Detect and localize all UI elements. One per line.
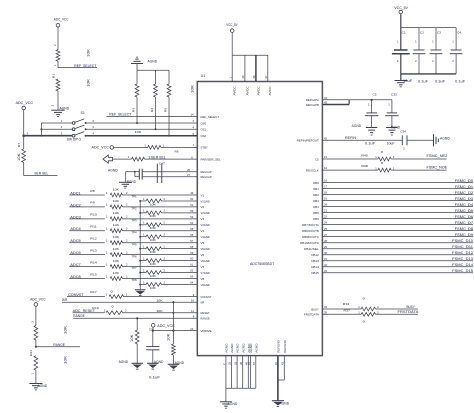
wire FRSTDATA: [322, 313, 361, 315]
power symbol ADC_VCC (VDRIVE): [151, 324, 175, 331]
svg-text:REFCAPA: REFCAPA: [306, 98, 320, 102]
wire switch common bold: [24, 135, 72, 137]
svg-text:64: 64: [190, 281, 193, 285]
svg-text:C32: C32: [391, 92, 397, 96]
resistor R21 10K (upper): [31, 321, 68, 347]
svg-text:26: 26: [187, 168, 190, 172]
svg-text:RGND: RGND: [127, 180, 137, 184]
svg-text:10K: 10K: [113, 235, 119, 239]
resistor R13 10K (ADC6 series): [90, 247, 197, 257]
svg-text:10K: 10K: [113, 223, 119, 227]
svg-text:R40: R40: [361, 153, 368, 157]
svg-text:AGND: AGND: [280, 401, 290, 405]
svg-text:R38: R38: [361, 164, 368, 168]
svg-text:REFGND: REFGND: [277, 339, 281, 352]
svg-text:FSMC_D8: FSMC_D8: [455, 227, 473, 231]
net ADC1: [69, 191, 105, 195]
svg-text:DB7/DOUTA: DB7/DOUTA: [302, 223, 320, 227]
svg-text:10K: 10K: [156, 299, 162, 303]
svg-text:10K: 10K: [150, 274, 156, 278]
wire DB8 / net FSMC_D8: [322, 227, 473, 231]
svg-text:ADC_VCC: ADC_VCC: [16, 101, 34, 105]
wire OS2 (bold): [87, 132, 198, 136]
svg-text:10K: 10K: [113, 247, 119, 251]
svg-text:19: 19: [324, 197, 327, 201]
resistor R40 0 (CS): [361, 150, 446, 161]
svg-text:CONVST: CONVST: [68, 293, 85, 297]
wire CS: [322, 158, 378, 160]
svg-text:22: 22: [324, 215, 327, 219]
svg-text:C34: C34: [400, 130, 406, 134]
svg-text:REFGND: REFGND: [283, 339, 287, 352]
U1 AGND pins bottom: [222, 343, 258, 366]
svg-text:AGND: AGND: [119, 360, 129, 364]
svg-text:FSMC_D10: FSMC_D10: [452, 239, 473, 243]
svg-text:VCC_5V: VCC_5V: [394, 6, 408, 10]
svg-text:R6: R6: [175, 149, 179, 153]
ground AGND (REFIN, rotated): [434, 134, 451, 146]
ground RGND (C32): [386, 125, 401, 135]
svg-text:DB13: DB13: [311, 259, 319, 263]
wire REFCAPB (bold): [322, 100, 349, 105]
svg-text:REGCAP: REGCAP: [201, 175, 212, 179]
svg-text:10K: 10K: [135, 130, 142, 134]
svg-text:RD/SCLK: RD/SCLK: [306, 168, 320, 172]
svg-text:R13: R13: [90, 248, 97, 252]
ground AGND (below divider): [51, 106, 69, 116]
svg-text:0.1uF: 0.1uF: [455, 79, 465, 83]
svg-text:REGCAP: REGCAP: [201, 170, 212, 174]
svg-text:AGND: AGND: [254, 343, 258, 353]
svg-text:18: 18: [324, 191, 327, 195]
test point TP8: [132, 278, 138, 282]
svg-text:RESET: RESET: [201, 311, 210, 315]
resistor R26 10K (V7GND pulldown): [139, 268, 197, 278]
svg-text:AGND: AGND: [175, 361, 185, 365]
svg-text:FSMC_D2: FSMC_D2: [455, 191, 473, 195]
resistor R25 10K (V6GND pulldown): [139, 256, 197, 266]
svg-text:RANGE: RANGE: [73, 314, 85, 318]
svg-text:10K: 10K: [150, 202, 156, 206]
svg-text:0.1uF: 0.1uF: [149, 376, 160, 380]
resistor R8 10K (ADC1 series): [90, 187, 197, 197]
resistor R9 10K (ADC2 series): [90, 199, 197, 209]
svg-text:10K: 10K: [150, 262, 156, 266]
svg-text:V4: V4: [201, 229, 205, 233]
value 10K (RESET row): [156, 309, 162, 313]
wire VGND bus: [139, 201, 141, 291]
svg-text:58: 58: [190, 245, 193, 249]
svg-text:32: 32: [324, 263, 327, 267]
net RANGE (divider tap): [35, 343, 80, 348]
svg-text:DB14: DB14: [311, 265, 319, 269]
svg-text:REF_SELECT: REF_SELECT: [109, 112, 132, 116]
svg-text:61: 61: [190, 263, 193, 267]
resistor R14 10K (ADC7 series): [90, 259, 197, 269]
svg-text:V6: V6: [201, 253, 205, 257]
wire AVCC rail: [232, 54, 268, 56]
wire DB11 / net FSMC_D11: [322, 245, 473, 249]
net BUSY: [407, 305, 416, 309]
svg-text:V3GND: V3GND: [201, 223, 211, 227]
svg-text:RANGE: RANGE: [201, 317, 210, 321]
svg-text:49: 49: [190, 191, 193, 195]
svg-text:27: 27: [187, 173, 190, 177]
wire DB1 / net FSMC_D1: [322, 185, 473, 189]
svg-text:20: 20: [324, 203, 327, 207]
svg-text:R10: R10: [90, 213, 97, 217]
svg-text:R8: R8: [90, 189, 95, 193]
svg-text:R14: R14: [90, 260, 97, 264]
svg-text:OS1: OS1: [201, 128, 207, 132]
capacitor C1 10uF bank: [392, 28, 410, 74]
test point TP2: [132, 207, 138, 211]
svg-text:R17: R17: [90, 290, 97, 294]
svg-text:13: 13: [324, 155, 327, 159]
svg-text:DB15: DB15: [311, 271, 319, 275]
svg-text:FSMC_NE2: FSMC_NE2: [427, 154, 448, 158]
svg-text:R34: R34: [343, 302, 350, 306]
svg-text:V4GND: V4GND: [201, 235, 211, 239]
wire REGCAP upper: [142, 168, 197, 172]
resistor R34 0 (BUSY): [343, 296, 418, 311]
svg-text:BUSY: BUSY: [407, 305, 416, 309]
svg-text:CONVST: CONVST: [201, 295, 212, 299]
svg-text:AGND: AGND: [241, 343, 245, 353]
svg-text:DB10/DOUTD: DB10/DOUTD: [300, 241, 319, 245]
svg-text:FRSTDATA: FRSTDATA: [398, 310, 420, 314]
switch S1 SW DIP-3: [61, 111, 95, 141]
net FSMC_NE2: [427, 154, 448, 158]
svg-text:10K: 10K: [113, 211, 119, 215]
svg-text:62: 62: [190, 269, 193, 273]
resistor R37 0 (FRSTDATA): [344, 309, 418, 324]
U1 REFGND pins bottom: [274, 339, 287, 400]
ground AGND (WR pulldown): [168, 361, 185, 370]
svg-text:FSMC_D3: FSMC_D3: [455, 197, 473, 201]
svg-text:DB4: DB4: [313, 205, 319, 209]
ground AGND (RANGE divider): [29, 384, 47, 390]
svg-text:VCC_5V: VCC_5V: [226, 23, 238, 27]
wire OS0: [87, 119, 198, 123]
svg-text:REFCAPB: REFCAPB: [306, 103, 319, 107]
svg-text:FSMC_D11: FSMC_D11: [452, 245, 473, 249]
svg-text:V7: V7: [201, 265, 205, 269]
svg-text:REF_SELECT: REF_SELECT: [74, 64, 97, 68]
ground AGND (U1 bottom): [220, 402, 238, 408]
svg-text:10K: 10K: [63, 355, 67, 364]
svg-text:42: 42: [324, 136, 327, 140]
wire AGND pin bus: [226, 366, 256, 402]
value 10K (WR pulldown): [156, 299, 162, 303]
capacitor C4 0.1uF bank: [450, 28, 465, 84]
svg-text:ADC7606SBDT: ADC7606SBDT: [250, 262, 274, 266]
svg-text:28: 28: [324, 239, 327, 243]
svg-text:R3: R3: [131, 107, 135, 112]
svg-text:V3: V3: [201, 217, 205, 221]
wire DB3 / net FSMC_D3: [322, 197, 473, 201]
svg-text:R7: R7: [17, 142, 21, 147]
svg-text:AGND: AGND: [225, 343, 229, 353]
resistor R19 0 (RESET): [92, 304, 197, 314]
svg-text:FRSTDATA: FRSTDATA: [304, 313, 320, 317]
svg-text:V8: V8: [201, 277, 205, 281]
svg-text:V2: V2: [201, 205, 205, 209]
svg-text:TP7: TP7: [132, 266, 138, 270]
test point TP6: [132, 254, 138, 258]
svg-text:AGND: AGND: [230, 343, 234, 353]
svg-text:FSMC_D4: FSMC_D4: [455, 203, 473, 207]
svg-text:AGND: AGND: [228, 402, 238, 406]
test point TP7: [132, 266, 138, 270]
test point TP3: [132, 218, 138, 222]
net ADC5: [69, 239, 105, 243]
svg-text:25: 25: [228, 362, 232, 365]
svg-text:TP5: TP5: [132, 242, 138, 246]
ground AGND (REFGND): [272, 401, 290, 407]
svg-text:VDRIVE: VDRIVE: [201, 329, 212, 333]
U1 right pin names and numbers: [297, 96, 328, 317]
svg-text:10uF: 10uF: [387, 141, 395, 145]
svg-text:AGND: AGND: [38, 384, 48, 388]
svg-text:57: 57: [190, 239, 193, 243]
svg-text:43: 43: [281, 362, 285, 365]
svg-text:R21: R21: [29, 349, 33, 356]
wire DB6 / net FSMC_D6: [322, 215, 473, 219]
wire BUSY: [322, 308, 361, 310]
wire REGCAP lower: [142, 173, 197, 177]
svg-text:AGND: AGND: [236, 343, 240, 353]
svg-text:RGND: RGND: [391, 125, 401, 129]
svg-text:OS2: OS2: [201, 134, 207, 138]
svg-text:AVCC: AVCC: [256, 85, 260, 95]
svg-text:FSMC_D9: FSMC_D9: [455, 233, 473, 237]
svg-text:FSMC_D12: FSMC_D12: [452, 251, 473, 255]
svg-text:V8GND: V8GND: [201, 283, 211, 287]
svg-text:REF_SELECT: REF_SELECT: [201, 115, 220, 119]
svg-text:1 SER SEL: 1 SER SEL: [148, 155, 166, 159]
svg-text:12: 12: [324, 166, 327, 170]
ground AGND (VGND bus): [135, 290, 146, 296]
svg-text:10K: 10K: [166, 332, 170, 341]
svg-text:FSMC_D7: FSMC_D7: [455, 221, 473, 225]
svg-text:29: 29: [324, 245, 327, 249]
svg-text:DB9/DOUTC: DB9/DOUTC: [302, 235, 319, 239]
wire DB15 / net FSMC_D15: [322, 269, 473, 273]
svg-text:33: 33: [324, 269, 327, 273]
svg-text:SER SEL: SER SEL: [34, 172, 48, 176]
svg-text:RANGE: RANGE: [53, 343, 65, 347]
ground AGND (C5): [352, 124, 378, 135]
U1 AVCC pins top: [228, 55, 272, 95]
svg-text:AGND: AGND: [154, 360, 164, 364]
svg-text:37: 37: [264, 75, 268, 78]
svg-text:34: 34: [324, 305, 327, 309]
svg-text:CS: CS: [315, 157, 319, 161]
svg-text:WR: WR: [201, 301, 205, 305]
svg-text:DB11/SEL: DB11/SEL: [304, 247, 319, 251]
test point TP5: [132, 242, 138, 246]
resistor R22 10K (RANGE pulldown): [130, 318, 139, 363]
resistor R22 10K (V3GND pulldown): [139, 221, 197, 231]
svg-text:R1: R1: [51, 73, 55, 78]
svg-text:10K: 10K: [63, 325, 67, 334]
svg-text:R12: R12: [90, 237, 97, 241]
svg-text:DB6: DB6: [313, 217, 319, 221]
junction at switch common: [22, 131, 28, 137]
svg-text:R4: R4: [150, 107, 154, 112]
svg-text:10uF: 10uF: [403, 79, 412, 83]
svg-text:10K: 10K: [150, 286, 156, 290]
resistor R2 10K: [51, 73, 91, 110]
wire DB14 / net FSMC_D14: [322, 263, 473, 267]
svg-text:10K: 10K: [113, 199, 119, 203]
svg-text:TP3: TP3: [132, 218, 138, 222]
svg-text:DB1: DB1: [313, 187, 319, 191]
svg-text:DB12: DB12: [311, 253, 319, 257]
resistor R23 10K (WR pulldown): [166, 301, 175, 364]
svg-text:REFIN/REFOUT: REFIN/REFOUT: [297, 139, 319, 143]
svg-text:14: 14: [191, 113, 194, 117]
net RANGE (pin row): [73, 314, 197, 319]
svg-text:AVCC: AVCC: [233, 85, 237, 95]
svg-text:S1: S1: [81, 111, 86, 115]
net ADC_RESET: [73, 309, 105, 313]
wire cap bank bottom rail: [401, 73, 456, 75]
svg-text:AVCC: AVCC: [268, 85, 272, 95]
ground AGND (C9): [147, 360, 164, 369]
power symbol ADC_VCC (RANGE divider): [30, 298, 46, 326]
svg-text:C2: C2: [420, 31, 424, 35]
off-page connector SER_SEL: [103, 155, 132, 163]
net ADC4: [69, 227, 105, 231]
svg-text:R11: R11: [90, 225, 97, 229]
svg-text:0.1uF: 0.1uF: [435, 79, 445, 83]
resistor R20 10K (V1GND pulldown): [139, 197, 197, 207]
svg-text:DB3: DB3: [313, 199, 319, 203]
svg-text:FSMC_D5: FSMC_D5: [455, 209, 473, 213]
power symbol ADC_VCC (switch common): [16, 101, 34, 136]
resistor R11 10K (ADC4 series): [90, 223, 197, 233]
resistor R27 10K (V8GND pulldown): [139, 280, 197, 290]
capacitor C32 10uF: [385, 92, 398, 145]
svg-text:36: 36: [239, 362, 243, 365]
wire DB5 / net FSMC_D5: [322, 209, 473, 213]
svg-text:10K: 10K: [191, 84, 195, 93]
capacitor C6 (REGCAP upper): [133, 169, 142, 175]
svg-text:STBY: STBY: [201, 146, 208, 150]
net FRSTDATA: [398, 310, 420, 314]
net REF_SELECT (wire to U1): [107, 112, 198, 116]
svg-text:AGND: AGND: [148, 59, 158, 63]
power symbol VCC_5V (AVCC): [226, 23, 238, 55]
wire DB10 / net FSMC_D10: [322, 239, 473, 243]
svg-text:24: 24: [324, 221, 327, 225]
resistor R12 10K (ADC5 series): [90, 235, 197, 245]
svg-text:FSMC_D1: FSMC_D1: [455, 185, 473, 189]
svg-text:V1GND: V1GND: [201, 199, 211, 203]
resistor R1 10K: [53, 44, 91, 68]
svg-text:27: 27: [324, 233, 327, 237]
svg-text:10K: 10K: [113, 187, 119, 191]
wire DB9 / net FSMC_D9: [322, 233, 473, 237]
svg-text:C5: C5: [373, 92, 377, 96]
svg-text:R19: R19: [92, 306, 99, 310]
label AGND (mid): [108, 168, 118, 172]
svg-text:16: 16: [324, 179, 327, 183]
wire DB7 / net FSMC_D7: [322, 221, 473, 225]
svg-text:AGND: AGND: [249, 343, 253, 353]
svg-text:AGND: AGND: [352, 124, 362, 128]
svg-text:51: 51: [190, 203, 193, 207]
capacitor C5 0.1uF: [365, 92, 378, 145]
wire VDRIVE: [152, 327, 198, 332]
svg-text:TP8: TP8: [132, 278, 138, 282]
power symbol VCC_5V (cap bank): [394, 6, 408, 28]
svg-text:54: 54: [190, 221, 193, 225]
svg-text:10K: 10K: [150, 214, 156, 218]
svg-text:DB2: DB2: [313, 193, 319, 197]
svg-text:SW DIP-3: SW DIP-3: [67, 138, 81, 142]
svg-text:10K: 10K: [113, 259, 119, 263]
svg-text:23: 23: [190, 327, 193, 331]
svg-text:R9: R9: [90, 201, 95, 205]
svg-text:V7GND: V7GND: [201, 271, 211, 275]
IC U1 ADC7606SBDT body: [197, 74, 322, 356]
resistor R21 10K (V2GND pulldown): [139, 209, 197, 219]
svg-text:25: 25: [324, 227, 327, 231]
svg-text:52: 52: [190, 209, 193, 213]
svg-text:V2GND: V2GND: [201, 211, 211, 215]
svg-text:10K: 10K: [150, 238, 156, 242]
resistor R7 10K (SER_SEL): [17, 136, 26, 176]
svg-text:ADC_VCC: ADC_VCC: [157, 324, 175, 328]
svg-text:AVCC: AVCC: [245, 85, 249, 95]
svg-text:33: 33: [233, 362, 237, 365]
svg-text:10K: 10K: [113, 271, 119, 275]
svg-text:R37: R37: [344, 309, 351, 313]
wire cap bank top rail: [401, 27, 456, 29]
svg-text:C1: C1: [402, 31, 406, 35]
resistor R4 (OS1 pulldown): [150, 70, 158, 130]
svg-text:0.1uF: 0.1uF: [418, 79, 428, 83]
svg-text:0.1uF: 0.1uF: [365, 141, 375, 145]
capacitor C2 0.1uF bank: [413, 28, 428, 84]
svg-text:10K: 10K: [150, 226, 156, 230]
svg-text:10K: 10K: [156, 309, 162, 313]
ground AGND (cap bank): [394, 74, 412, 87]
net SER_SEL (bottom stub): [24, 172, 58, 176]
svg-text:C47: C47: [159, 161, 165, 165]
svg-text:10K: 10K: [130, 333, 134, 342]
net ADC7: [69, 263, 105, 267]
svg-text:50: 50: [190, 197, 193, 201]
svg-text:TP6: TP6: [132, 254, 138, 258]
svg-text:TP1: TP1: [132, 195, 138, 199]
wire switch pole feeds: [40, 123, 72, 137]
capacitor C9 0.1uF (VDRIVE): [146, 327, 160, 379]
resistor R16 (PAR/SER_SEL): [128, 155, 198, 161]
svg-text:10: 10: [191, 298, 194, 302]
svg-text:AGND: AGND: [60, 106, 70, 110]
wire DB13 / net FSMC_D13: [322, 257, 473, 261]
svg-text:FSMC_D6: FSMC_D6: [455, 215, 473, 219]
resistor R6 (STBY): [145, 143, 198, 153]
ground AGND (above OS pulldowns): [131, 57, 158, 70]
net CONVST: [67, 293, 105, 297]
svg-text:C4: C4: [457, 31, 461, 35]
svg-text:60: 60: [190, 257, 193, 261]
